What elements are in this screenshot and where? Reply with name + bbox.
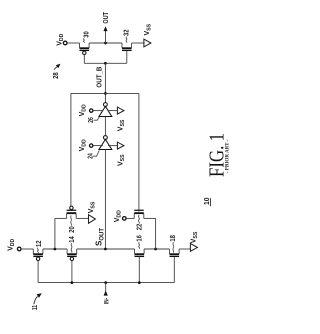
wire bbox=[132, 42, 144, 44]
wire S_OUT bbox=[104, 150, 106, 250]
wire feedback left branch bbox=[70, 93, 72, 207]
wire bbox=[43, 248, 67, 250]
wire gate of 14 bbox=[71, 261, 73, 283]
wire bbox=[77, 248, 135, 250]
transistor 18 bbox=[169, 249, 171, 254]
svg-text:SOUT: SOUT bbox=[95, 228, 106, 246]
wire gates bus bbox=[84, 62, 127, 64]
node 22-16-18 junction bbox=[154, 248, 157, 251]
wire gate of 16 bbox=[138, 257, 140, 283]
svg-text:30: 30 bbox=[81, 31, 90, 38]
wire bbox=[179, 248, 190, 250]
svg-text:18: 18 bbox=[168, 235, 177, 242]
wire bbox=[67, 42, 80, 44]
node gate bus 16 bbox=[138, 281, 141, 284]
svg-text:32: 32 bbox=[122, 30, 131, 37]
wire bbox=[21, 248, 33, 250]
svg-text:10: 10 bbox=[202, 198, 211, 206]
wire gate bus bbox=[38, 282, 174, 284]
svg-text:IN-: IN- bbox=[104, 298, 111, 304]
node OUT junction bbox=[104, 42, 107, 45]
wire drain of 22 bbox=[144, 217, 156, 219]
svg-text:22: 22 bbox=[135, 224, 144, 231]
power terminal VDD (comparator) bbox=[17, 247, 21, 251]
svg-text:VSS: VSS bbox=[190, 231, 199, 243]
wire OUT_B bbox=[104, 63, 106, 102]
svg-text:VSS: VSS bbox=[88, 201, 97, 213]
node S_OUT junction bbox=[104, 248, 107, 251]
svg-text:28: 28 bbox=[51, 72, 60, 79]
wire gate of 30 bbox=[83, 55, 85, 64]
svg-text:- PRIOR ART -: - PRIOR ART - bbox=[224, 140, 230, 174]
node feedback junction bbox=[104, 92, 107, 95]
svg-text:20: 20 bbox=[67, 226, 76, 233]
transistor 16 bbox=[134, 249, 136, 254]
wire bbox=[89, 42, 122, 44]
transistor 30 bbox=[79, 43, 81, 48]
wire riser to 20 bbox=[54, 218, 56, 249]
power terminal VDD of 22 bbox=[123, 217, 127, 221]
svg-text:16: 16 bbox=[135, 235, 144, 242]
svg-text:OUT: OUT bbox=[101, 12, 110, 24]
supply VSS of 20 bbox=[89, 215, 96, 224]
supply VSS of 26 bbox=[108, 110, 117, 112]
node gate bus IN bbox=[104, 281, 107, 284]
wire bbox=[144, 248, 169, 250]
input IN- arrow bbox=[105, 283, 107, 291]
transistor 32 bbox=[121, 43, 123, 48]
transistor 12 bbox=[32, 249, 34, 254]
svg-text:OUT_B: OUT_B bbox=[94, 67, 103, 88]
svg-text:VSS: VSS bbox=[117, 154, 126, 166]
inverter 24 bbox=[104, 136, 108, 140]
node 12-14-20 junction bbox=[54, 248, 57, 251]
wire OUT arrow bbox=[105, 31, 107, 43]
inverter 26 bbox=[104, 103, 108, 107]
svg-text:VDD: VDD bbox=[114, 210, 123, 222]
wire bbox=[76, 217, 89, 219]
node gate bus 14 bbox=[71, 281, 74, 284]
svg-text:VDD: VDD bbox=[79, 139, 88, 151]
transistor 20 bbox=[66, 214, 68, 219]
node OUT_B junction bbox=[104, 62, 107, 65]
supply VSS of 18 bbox=[190, 244, 197, 252]
svg-text:14: 14 bbox=[67, 236, 76, 243]
supply VSS of 24 bbox=[108, 145, 117, 147]
wire gate of 12 bbox=[37, 261, 39, 283]
svg-text:VDD: VDD bbox=[8, 238, 17, 250]
power terminal VDD of 26 bbox=[90, 109, 93, 112]
transistor 22 bbox=[133, 214, 135, 219]
svg-text:VDD: VDD bbox=[79, 104, 88, 116]
svg-text:11: 11 bbox=[30, 305, 39, 311]
wire gate of 18 bbox=[173, 257, 175, 283]
wire gate of 32 bbox=[126, 51, 128, 63]
svg-text:12: 12 bbox=[34, 241, 43, 248]
wire bbox=[104, 117, 106, 136]
supply VSS (output stage) bbox=[144, 39, 151, 47]
wire bbox=[126, 217, 134, 219]
power terminal VDD (output stage) bbox=[63, 41, 67, 45]
power terminal VDD of 24 bbox=[90, 144, 93, 147]
svg-text:VSS: VSS bbox=[117, 119, 126, 131]
wire feedback right branch bbox=[138, 93, 140, 211]
transistor 14 bbox=[66, 249, 68, 254]
wire feedback bus bbox=[71, 92, 139, 94]
svg-text:VSS: VSS bbox=[144, 23, 153, 35]
